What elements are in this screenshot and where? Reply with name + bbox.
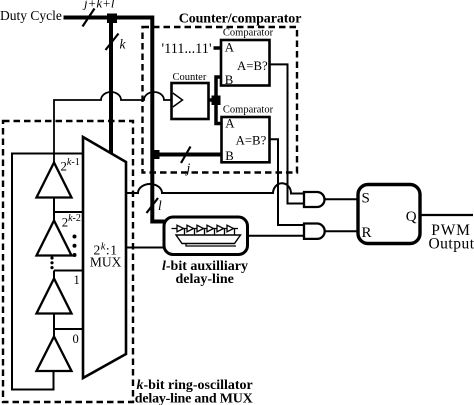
wire chain node + tap 2^k-2 [54, 198, 83, 222]
svg-text:A=B?: A=B? [237, 59, 268, 73]
buffer 2^k-2 [37, 221, 72, 256]
wire PWM output [420, 214, 473, 216]
svg-text:delay-line: delay-line [176, 272, 234, 287]
aux internal tap wires [185, 229, 235, 236]
svg-text:A: A [225, 117, 235, 131]
wire duty-cycle input bus j+k+l [64, 18, 167, 222]
wire chain node + tap 0 [54, 314, 83, 338]
comparator U2 [221, 40, 270, 86]
and gate S [304, 192, 325, 207]
wire counter to comparator1 B [216, 77, 221, 97]
aux internal mux trapezoid [176, 235, 241, 244]
bus slash l [147, 198, 159, 213]
wire all-ones stub to comparator1 A [214, 46, 222, 50]
buffer 0 [37, 337, 72, 372]
bus slash k [106, 34, 119, 51]
wire k select bus to MUX [109, 18, 113, 154]
junction node j branch [151, 150, 160, 159]
svg-text:0: 0 [73, 332, 79, 346]
auxiliary delay-line block [164, 217, 248, 255]
svg-text:Output: Output [428, 236, 474, 253]
bus slash j [181, 147, 191, 164]
ellipsis dots taps [73, 235, 77, 239]
aux delay-line internal wire [172, 228, 239, 230]
svg-text:2k-1: 2k-1 [61, 157, 80, 173]
ellipsis dots chain [50, 256, 53, 259]
svg-text:1: 1 [74, 273, 80, 287]
wire S gate to latch [325, 198, 358, 200]
counter U1 [172, 83, 209, 119]
dashed box k-bit ring-oscillator delay-line and MUX [3, 121, 133, 402]
wire counter output [208, 98, 213, 102]
svg-text:B: B [225, 149, 234, 163]
svg-text:'111...11': '111...11' [162, 41, 212, 57]
buffer 2^k-1 [37, 163, 72, 198]
svg-text:Duty Cycle: Duty Cycle [0, 8, 62, 23]
dashed box Counter/comparator [143, 27, 298, 173]
SR latch U4 [358, 185, 420, 244]
wire MUX output to auxiliary delay-line [126, 247, 166, 249]
svg-text:MUX: MUX [90, 254, 122, 269]
wire MUX tap to S gate (hop over l bus, hop over comparator outputs) [126, 183, 304, 193]
svg-text:j+k+l: j+k+l [82, 0, 115, 11]
svg-text:Q: Q [406, 209, 417, 225]
junction node bus split [107, 14, 117, 24]
wire aux output to R gate [247, 235, 304, 237]
bus slash j+k+l [83, 9, 95, 27]
multiplexer 2^k:1 MUX [83, 137, 126, 378]
svg-text:R: R [362, 225, 372, 241]
wire top buffer output to counter clock (with hops) [54, 92, 171, 163]
svg-text:delay-line and MUX: delay-line and MUX [135, 391, 253, 405]
svg-text:l: l [158, 198, 162, 213]
aux internal output wire [186, 244, 236, 247]
comparator U3 [222, 117, 270, 162]
title Counter/comparator [172, 8, 306, 25]
counter clock pin symbol [173, 93, 183, 107]
wire tap 1 [54, 271, 83, 280]
svg-text:Comparator: Comparator [223, 28, 274, 39]
aux internal buffer cells [177, 225, 234, 232]
junction node counter output [212, 96, 221, 106]
svg-text:Counter: Counter [173, 72, 207, 83]
wire counter to comparator2 A [216, 103, 222, 124]
svg-text:Counter/comparator: Counter/comparator [179, 12, 302, 27]
wire j bus to comparator B [152, 153, 221, 157]
wire comparator2 output to R gate [270, 139, 305, 225]
svg-text:S: S [362, 191, 370, 207]
svg-text:A: A [225, 41, 235, 55]
wire R gate to latch [325, 230, 358, 232]
svg-text:2k-2: 2k-2 [62, 213, 81, 229]
svg-text:A=B?: A=B? [236, 134, 267, 148]
svg-text:k: k [120, 37, 127, 52]
buffer 1 [37, 279, 72, 314]
and gate R [304, 224, 325, 239]
svg-text:B: B [225, 73, 234, 87]
wire ring feedback (top tap to buffer 0 input) [12, 154, 83, 390]
svg-text:Comparator: Comparator [223, 105, 274, 116]
wire comparator1 output to S gate [270, 64, 305, 203]
